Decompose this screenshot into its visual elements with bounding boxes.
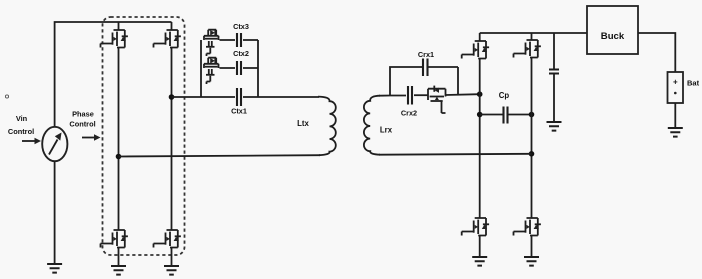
transistor Q1 (bridge top-left MOSFET) <box>101 30 128 48</box>
ground below Q7 <box>472 257 487 266</box>
ground below Q4 <box>164 266 179 275</box>
node: bridge left-leg output <box>116 154 122 160</box>
wire: Cp branch <box>480 114 532 116</box>
ground below Q3 <box>111 266 126 275</box>
svg-text:Ctx2: Ctx2 <box>233 49 249 58</box>
transistor Q6 (rectifier top-right MOSFET) <box>514 40 541 58</box>
ground below filter cap <box>547 122 562 131</box>
dashed control box around full-bridge <box>103 17 185 255</box>
node: bridge right-leg output <box>169 94 175 100</box>
transistor Q5 (rectifier top-left MOSFET) <box>462 41 489 59</box>
wire: column B Q6 source down to Q8 <box>531 58 533 219</box>
svg-text:Bat: Bat <box>687 79 700 88</box>
transistor Q3 (bridge bottom-left MOSFET) <box>101 230 128 248</box>
capacitor Ctx2 <box>237 61 241 75</box>
wire: Vin source bottom lead <box>54 161 56 264</box>
wire: output row B to Ltx bottom <box>119 155 321 156</box>
ground below battery <box>668 128 683 137</box>
capacitor Crx2 <box>408 86 412 105</box>
battery Bat <box>668 72 684 103</box>
wire: node A down through Cp row to Q7 <box>479 94 481 218</box>
svg-text:Crx1: Crx1 <box>418 50 434 59</box>
node B (rectifier input right, Lrx bottom) <box>529 151 535 157</box>
wire: output top rail <box>480 32 587 34</box>
arrow: Phase control <box>82 137 95 139</box>
wire: row A from Ctx1 to Ltx <box>243 96 319 98</box>
wire: Q5 drain to top rail <box>479 33 481 41</box>
wire: Crx1 bypass branch <box>390 67 458 96</box>
capacitor Crx1 <box>423 59 428 77</box>
node: Cp right <box>529 112 535 118</box>
wire: node A up to Q5 <box>479 59 481 95</box>
arrow inside source <box>49 140 58 155</box>
svg-text:Buck: Buck <box>601 31 625 42</box>
wire: Ctx3 branch <box>220 39 259 41</box>
svg-text:Vin: Vin <box>16 114 28 123</box>
svg-text:Crx2: Crx2 <box>401 109 417 118</box>
transistor Q7 (rectifier bottom-left MOSFET) <box>462 218 489 236</box>
wire: Q4 source to ground <box>171 248 173 267</box>
svg-text:Ltx: Ltx <box>297 119 309 128</box>
transistor S2 (series switch for Ctx2) <box>204 58 219 84</box>
inductor Lrx receive coil <box>364 96 380 155</box>
node: Cp left <box>477 112 483 118</box>
wire: right bridge leg Q2 source to Q4 drain <box>171 48 173 231</box>
arrow: Vin control <box>22 140 35 142</box>
svg-text:Phase: Phase <box>72 110 94 119</box>
ground below Vin source <box>47 264 62 273</box>
wire: battery to ground <box>674 103 676 128</box>
wire: cap bank left bus <box>200 40 202 97</box>
wire: cap bank right bus <box>257 40 259 97</box>
wire: Q3 source to ground <box>118 248 120 267</box>
capacitor output filter <box>549 70 559 74</box>
wire: Vin source top lead and top rail of bridge <box>55 22 172 128</box>
scan artifact mark <box>5 95 8 98</box>
capacitor Ctx1 <box>237 88 241 106</box>
transistor Q8 (rectifier bottom-right MOSFET) <box>514 218 541 236</box>
inductor Ltx transmit coil <box>318 97 336 156</box>
svg-text:Ctx3: Ctx3 <box>233 22 249 31</box>
Buck converter block <box>587 6 638 54</box>
transistor Q2 (bridge top-right MOSFET) <box>154 30 181 48</box>
wire: Lrx top to Crx2 <box>379 95 406 97</box>
ground below Q8 <box>524 257 539 266</box>
node A (rectifier input left) <box>477 91 483 97</box>
wire: Q6 drain to top rail <box>531 33 533 40</box>
transistor Q4 (bridge bottom-right MOSFET) <box>154 230 181 248</box>
wire: filter cap to ground <box>553 74 555 123</box>
wire: Ctx2 branch <box>220 67 259 69</box>
wire: Crx2 to switch <box>414 94 428 96</box>
svg-text:Control: Control <box>8 127 34 136</box>
svg-text:Ctx1: Ctx1 <box>231 107 247 116</box>
svg-text:Lrx: Lrx <box>380 126 393 135</box>
wire: switch to node A <box>446 93 480 96</box>
svg-text:Control: Control <box>69 120 95 129</box>
svg-text:+: + <box>673 78 678 87</box>
wire: row B from Lrx bottom to node B <box>379 153 532 156</box>
wire: riser from top rail to Q1 drain <box>118 22 120 30</box>
capacitor Ctx3 <box>237 33 241 47</box>
Vin source circle <box>42 127 67 161</box>
wire: riser from top rail to Q2 drain <box>171 22 173 30</box>
wire: Q7 source to ground <box>479 236 481 258</box>
transistor S1 (Crx bypass switch) <box>428 86 446 113</box>
capacitor Cp <box>504 107 508 124</box>
wire: output row A to capacitor bank <box>172 96 236 98</box>
wire: Buck output to battery <box>638 33 675 72</box>
transistor S3 (series switch for Ctx3) <box>204 30 219 56</box>
svg-text:Cp: Cp <box>499 91 510 100</box>
wire: filter cap branch from rail <box>553 33 555 70</box>
wire: left bridge leg Q1 source to Q3 drain <box>118 48 120 231</box>
wire: Q8 source to ground <box>531 236 533 258</box>
